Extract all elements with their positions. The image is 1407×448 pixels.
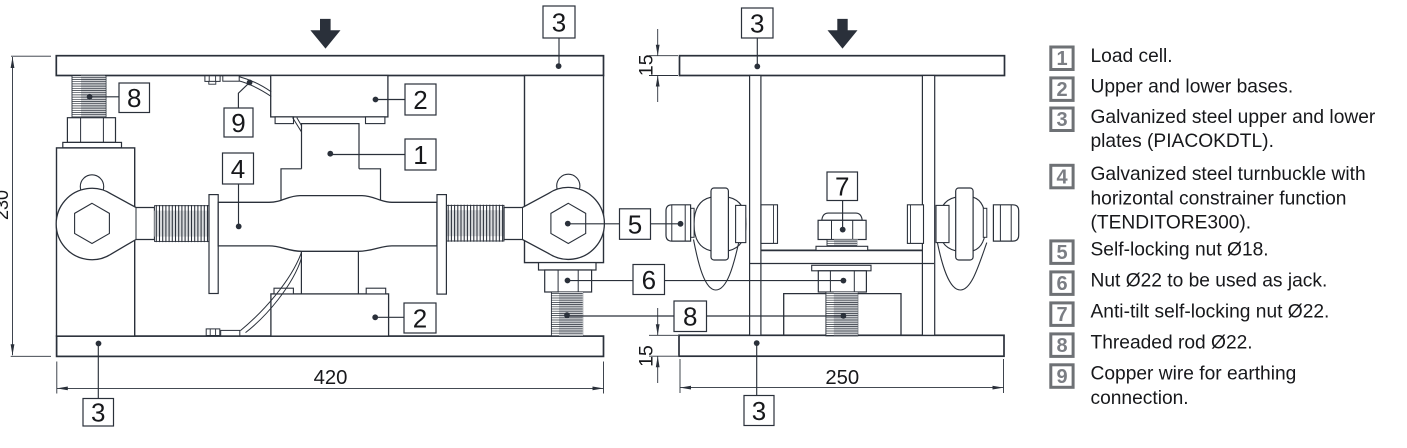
legend item 8 [1051,333,1253,357]
svg-text:Load cell.: Load cell. [1091,46,1173,67]
label 7 [827,172,858,202]
copper wire 9 segment near upper foot [293,118,302,132]
leader line to top-middle label 3 [756,38,758,66]
label 2 lower [404,303,436,333]
legend item 2 [1051,77,1293,101]
label 1 [405,139,436,170]
leader line to label 1 [330,154,405,156]
svg-text:3: 3 [552,7,566,37]
lower base 2 [271,294,389,336]
svg-text:Self-locking nut Ø18.: Self-locking nut Ø18. [1091,240,1269,261]
svg-text:15: 15 [636,54,658,76]
right barrel (eye side view) [939,197,956,251]
leader line to label 4 [238,184,240,226]
load cell 1 upper column [302,124,360,169]
turnbuckle 4 body [218,196,437,252]
legend item 9 [1051,364,1297,409]
load cell upper step [281,169,381,203]
washer under right block [539,263,597,270]
dimension 230 [11,55,51,57]
svg-text:Threaded rod Ø22.: Threaded rod Ø22. [1091,333,1253,354]
label 3 top-middle [742,8,774,38]
svg-text:(TENDITORE300).: (TENDITORE300). [1091,213,1252,234]
galvanized upper plate 3 (side view) [680,56,1005,76]
nut 7 dome [822,213,862,220]
svg-text:Nut Ø22 to be used as jack.: Nut Ø22 to be used as jack. [1091,271,1328,292]
right eye outline [504,187,604,259]
wire clamp on upper plate [223,76,239,81]
left barrel step [736,205,746,242]
copper wire 9 upper run [239,77,271,92]
svg-text:8: 8 [127,83,141,113]
leader line to top-left label 3 [558,38,560,66]
left barrel left arc [694,197,711,251]
label 3 bottom-left [83,398,114,428]
svg-text:6: 6 [1056,273,1067,295]
svg-text:5: 5 [628,209,642,239]
svg-text:7: 7 [835,172,849,202]
leader line to upper label 2 [376,99,406,101]
svg-text:8: 8 [1056,335,1067,357]
upper base left foot [275,117,293,124]
upper base right foot [366,117,385,124]
left eye outline [56,188,154,259]
hex nut on rod 8 [67,118,115,143]
nut 7 exposed thread [827,240,858,247]
left vertical rod [750,76,761,336]
svg-text:1: 1 [1056,48,1067,70]
leader line label 6 to side-view nut [665,280,844,282]
leader line label 8 to side-view rod [707,315,844,317]
svg-text:230: 230 [0,190,12,220]
self-locking nut 5 (side view) [666,205,691,241]
leader line label 8 to left-view rod [567,315,674,317]
dimension 420 [56,362,58,394]
washer left assembly [691,208,695,237]
svg-text:2: 2 [1056,79,1067,101]
nut 7 hex body [818,220,866,239]
turnbuckle 4 left threads [155,205,210,242]
svg-text:8: 8 [683,302,697,332]
svg-text:4: 4 [231,154,245,184]
right turnbuckle eye [557,174,580,197]
copper wire 9 lower run [240,253,301,331]
svg-text:Upper and lower bases.: Upper and lower bases. [1091,77,1294,98]
svg-text:3: 3 [750,8,764,38]
threaded rod 8 (bottom right of left view) [551,292,583,336]
leader line to label 9 [238,82,249,108]
right vertical rod [922,76,934,336]
side nut on right rod [907,205,923,244]
yoke plate [761,249,922,251]
turnbuckle right flange [437,195,446,295]
load direction arrow (side view) [828,19,858,49]
svg-text:Copper wire for earthing: Copper wire for earthing [1091,364,1297,385]
right bracket block [525,76,604,263]
svg-text:9: 9 [231,108,245,138]
svg-text:3: 3 [752,396,766,426]
leader line label 6 to left-view nut [568,280,634,282]
nut 6 (left view) [545,270,592,292]
legend item 4 [1051,164,1366,234]
leader line to top-left label 8 [90,96,119,98]
earthing terminal on lower plate [206,329,220,336]
turnbuckle left flange [209,195,218,294]
load cell 1 lower column [300,251,302,294]
label 4 [223,153,254,184]
label 5 [620,209,651,240]
svg-text:7: 7 [1056,304,1067,326]
washer over nut 6 (side view) [812,265,871,271]
left bracket block [57,148,135,336]
leader line to bottom-middle label 3 [756,343,758,395]
left turnbuckle eye (4) [80,175,103,198]
label 8 middle [674,301,707,332]
svg-text:4: 4 [1056,167,1068,189]
leader line label 5 to side nut [651,223,681,225]
svg-text:15: 15 [636,345,658,367]
lower base right foot [366,288,386,294]
leader line to bottom-left label 3 [97,344,99,399]
legend item 7 [1051,302,1330,326]
legend item 6 [1051,271,1327,295]
washer right assembly [983,208,987,237]
left barrel right arc [728,197,746,251]
leader line to lower label 2 [375,316,404,318]
svg-text:250: 250 [825,367,859,389]
label 9 [224,108,253,138]
left barrel rim slab [711,188,728,260]
svg-text:1: 1 [413,140,427,170]
dimension 250 [679,359,681,393]
nut 6 (side view) [818,271,866,292]
leader line to label 7 [842,201,844,230]
svg-text:420: 420 [314,367,348,389]
load direction arrow (left view) [310,19,340,49]
upper base 2 [271,76,388,117]
svg-text:Anti-tilt self-locking nut Ø22: Anti-tilt self-locking nut Ø22. [1091,302,1330,323]
left eye hexagon [75,203,110,243]
label 6 [633,265,665,295]
svg-text:5: 5 [1056,242,1067,264]
dimension 15 bottom [649,334,678,336]
threaded rod 8 (side view) [826,292,858,336]
galvanized lower plate 3 (left view) [57,336,604,356]
earthing terminal under upper plate [205,76,220,82]
base block (side view) [784,294,901,336]
label 3 top-left [543,6,575,38]
legend item 3 [1051,107,1376,152]
right barrel step [936,205,949,242]
label 3 bottom-middle [744,396,774,426]
leader line label 5 to right eye [568,223,620,225]
svg-text:Galvanized steel upper and low: Galvanized steel upper and lower [1091,107,1376,128]
legend item 5 [1051,240,1269,264]
svg-text:2: 2 [413,303,427,333]
dimension 15 top [649,55,678,57]
svg-text:connection.: connection. [1091,388,1189,409]
label 2 upper [405,84,436,115]
left strap loop [694,240,739,291]
turnbuckle 4 right threads [446,205,504,242]
svg-text:6: 6 [642,265,656,295]
washer under nut [63,142,122,148]
right barrel rim slab [956,188,973,260]
right eye hexagon [551,203,586,243]
side nut on left rod [761,205,778,244]
svg-text:2: 2 [413,85,427,115]
legend item 1 [1051,46,1173,70]
svg-text:plates (PIACOKDTL).: plates (PIACOKDTL). [1091,131,1274,152]
label 8 top-left [119,83,150,113]
svg-text:horizontal constrainer functio: horizontal constrainer function [1091,188,1347,209]
right strap loop [937,243,986,290]
lower bracket plate line [750,263,934,265]
threaded rod 8 top-left [72,76,106,118]
washer under nut 7 [816,246,868,250]
hex nut right assembly [993,205,1018,241]
galvanized upper plate 3 (left view) [56,56,603,76]
galvanized lower plate 3 (side view) [679,335,1004,356]
svg-text:9: 9 [1056,366,1067,388]
svg-text:3: 3 [1056,109,1067,131]
svg-text:Galvanized steel turnbuckle wi: Galvanized steel turnbuckle with [1091,164,1366,185]
lower base left foot [274,288,293,294]
svg-text:3: 3 [91,398,105,428]
